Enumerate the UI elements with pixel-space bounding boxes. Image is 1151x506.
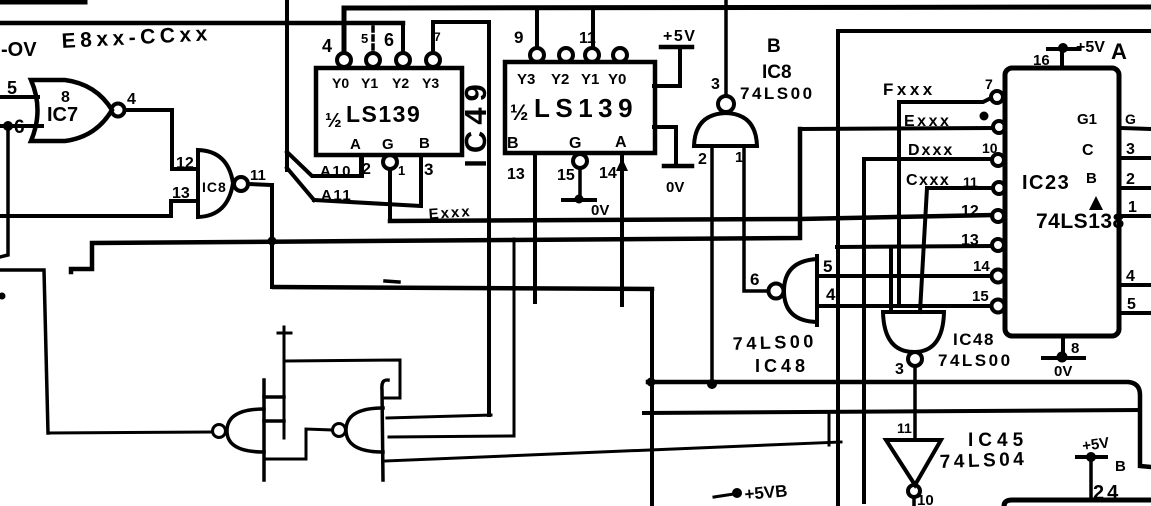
wire rail y382: [648, 382, 1151, 467]
wire Exxx to pin9: [801, 128, 993, 129]
wire pin2 stub A: [359, 155, 363, 174]
wire output 11 down to y288 rail: [270, 185, 274, 287]
wire pin15 to ground: [578, 168, 582, 199]
wire Y3 net jog and long vertical x489: [433, 22, 489, 415]
box bottom right corner: [1004, 500, 1151, 506]
pin12 circle: [992, 210, 1004, 222]
wire Y1 pin up dashed: [371, 27, 375, 51]
svg-text:74LS04: 74LS04: [939, 449, 1027, 473]
svg-text:G: G: [382, 136, 394, 153]
node A10/A11 bus vertical x287: [285, 0, 289, 170]
svg-text:5: 5: [1127, 296, 1136, 313]
wire crossbar inputs gate L: [264, 395, 284, 399]
svg-text:1: 1: [735, 149, 743, 166]
svg-text:12: 12: [176, 155, 194, 172]
junction dot left edge: [0, 293, 6, 300]
svg-text:4: 4: [127, 91, 136, 108]
svg-text:Y2: Y2: [392, 75, 409, 91]
wire pin12 to +5V: [654, 49, 680, 86]
wire y417 lead to x489: [387, 415, 491, 418]
wire top border segment: [0, 0, 85, 5]
wire top rail y8: [344, 7, 1151, 51]
svg-text:4: 4: [322, 36, 332, 56]
power +5V B bottom right: [1077, 455, 1106, 459]
wire Exxx lead x801 handled, rail y31: [838, 31, 1151, 506]
junction x712 on y382: [707, 379, 717, 389]
svg-text:2: 2: [1126, 171, 1135, 188]
power +5VB arrow: [714, 494, 734, 497]
svg-text:13: 13: [172, 185, 190, 202]
nand-gate GL bottom (left-facing): [227, 409, 264, 452]
IC half LS139 box (right): [505, 62, 655, 153]
svg-text:9: 9: [514, 28, 523, 47]
wire rail y288: [274, 287, 652, 289]
nand-gate IC8 section A: [198, 150, 233, 217]
wire Cxxx vertical: [920, 188, 927, 312]
IC IC49 half LS139 box (left): [316, 68, 462, 155]
wire A11 diagonal: [287, 168, 314, 200]
power pin16 +5V: [1060, 49, 1064, 68]
svg-text:4: 4: [826, 285, 836, 304]
tick dash mark: [385, 281, 399, 282]
svg-text:G: G: [1125, 111, 1136, 127]
nor-gate IC7: [31, 80, 112, 141]
svg-text:0V: 0V: [591, 202, 609, 219]
svg-text:Exxx: Exxx: [904, 113, 951, 130]
svg-text:2: 2: [698, 151, 707, 168]
wire Dxxx to pin10: [864, 157, 992, 161]
wire pin1 G circle: [383, 155, 397, 169]
wire IC48 input vertical x891: [889, 247, 893, 312]
wire IC8 pin2 vertical: [710, 146, 714, 384]
wire pin9 up: [535, 8, 539, 48]
svg-text:5: 5: [7, 78, 17, 98]
junction y382 start: [647, 378, 656, 387]
svg-text:IC8: IC8: [762, 62, 792, 83]
svg-text:A: A: [1111, 39, 1127, 64]
svg-text:0V: 0V: [1054, 363, 1072, 380]
svg-text:C: C: [1082, 142, 1094, 159]
svg-text:½: ½: [325, 110, 342, 132]
svg-text:B: B: [1115, 458, 1126, 475]
wire y270 from left edge: [0, 270, 48, 433]
svg-text:½: ½: [510, 100, 528, 125]
wire right pin to ground: [654, 127, 676, 164]
svg-text:Cxxx: Cxxx: [906, 172, 950, 189]
wire gateL output long left: [48, 432, 212, 433]
svg-text:8: 8: [1071, 340, 1079, 357]
power +5V bar: [661, 45, 692, 50]
wire pin13 feed from left edge: [0, 201, 198, 216]
wire IC7 output to node: [125, 108, 172, 112]
ground bar 0V right: [664, 164, 692, 169]
svg-text:IC48: IC48: [953, 330, 995, 349]
node A arrow inside IC23: [1089, 196, 1103, 210]
junction ground dot: [575, 195, 584, 204]
svg-text:14: 14: [973, 258, 990, 275]
svg-text:-OV: -OV: [1, 39, 37, 61]
wire x652 vertical down: [650, 289, 654, 506]
svg-text:10: 10: [982, 140, 998, 156]
svg-text:Dxxx: Dxxx: [908, 142, 954, 159]
ground pin8 0V: [1061, 336, 1065, 356]
svg-text:11: 11: [897, 420, 912, 436]
svg-text:10: 10: [917, 492, 934, 506]
svg-text:11: 11: [579, 30, 596, 47]
wire rail y240 staircase: [71, 129, 800, 272]
svg-text:LS139: LS139: [534, 93, 638, 123]
svg-text:15: 15: [972, 288, 989, 305]
wire y361 branch: [286, 360, 400, 398]
svg-text:74LS00: 74LS00: [938, 351, 1013, 370]
svg-text:IC23: IC23: [1022, 172, 1070, 194]
svg-text:+5VB: +5VB: [744, 481, 788, 504]
ground bar 0V: [563, 198, 595, 202]
svg-text:B: B: [767, 36, 781, 57]
svg-text:Y1: Y1: [581, 71, 599, 88]
wire pin14 down with arrow: [620, 153, 624, 305]
svg-text:3: 3: [424, 160, 433, 179]
wire pin6 stub IC7: [0, 124, 42, 128]
svg-text:6: 6: [384, 30, 394, 50]
wire A10: [287, 152, 362, 176]
wire IC8 pin1 vertical to IC48 output: [744, 146, 766, 291]
svg-text:74LS00: 74LS00: [740, 84, 815, 103]
svg-text:B: B: [507, 135, 519, 152]
svg-text:0V: 0V: [666, 179, 684, 196]
svg-text:A: A: [350, 136, 361, 153]
svg-text:5: 5: [823, 257, 832, 276]
wire pin11 up: [591, 8, 595, 48]
wire stub diagonal to y412: [828, 412, 831, 445]
wire gateL input bar: [262, 380, 266, 480]
svg-text:12: 12: [961, 203, 979, 220]
svg-text:3: 3: [895, 361, 904, 378]
svg-text:11: 11: [250, 167, 266, 184]
svg-text:IC45: IC45: [968, 430, 1028, 451]
svg-text:+5V: +5V: [663, 28, 696, 45]
svg-text:Exxx: Exxx: [428, 203, 472, 223]
wire IC8 output 11: [248, 184, 272, 185]
nand-gate IC48 section B (down-facing): [883, 312, 944, 352]
svg-text:74LS138: 74LS138: [1036, 210, 1125, 233]
node plus mark: [278, 332, 291, 335]
wire pin3 stub B down: [314, 155, 421, 206]
wire pin15 G circle: [573, 154, 587, 168]
wire rail y23: [0, 21, 403, 26]
svg-text:IC7: IC7: [47, 104, 78, 126]
svg-text:13: 13: [961, 232, 979, 249]
wire x284 vertical: [283, 339, 286, 438]
svg-text:4: 4: [1126, 268, 1135, 285]
svg-text:6: 6: [750, 270, 759, 289]
svg-text:2: 2: [362, 161, 371, 178]
wire IC23 right stubs: [1120, 128, 1151, 129]
wire x514 vertical: [513, 239, 516, 436]
nand-gate IC8 section B: [694, 113, 757, 146]
svg-text:Y1: Y1: [361, 75, 378, 91]
svg-text:A11: A11: [321, 187, 352, 204]
svg-text:+5V: +5V: [1076, 39, 1105, 56]
wire Dxxx vertical x864: [862, 159, 866, 502]
wire Y2 pin up: [401, 23, 405, 51]
wire Cxxx to pin11: [927, 186, 993, 190]
svg-text:IC49: IC49: [458, 78, 493, 167]
wire gateR input bar: [382, 380, 388, 480]
svg-text:G: G: [569, 135, 581, 152]
svg-text:IC8: IC8: [202, 179, 227, 195]
svg-text:3: 3: [711, 76, 720, 93]
svg-text:B: B: [419, 135, 430, 152]
svg-text:11: 11: [963, 174, 978, 190]
svg-text:Y0: Y0: [332, 75, 349, 91]
svg-text:14: 14: [599, 165, 617, 182]
svg-text:1: 1: [398, 163, 405, 178]
wire Fxxx vertical x899: [897, 102, 901, 306]
svg-text:Y0: Y0: [608, 71, 626, 88]
svg-text:1: 1: [1128, 199, 1137, 216]
svg-text:B: B: [1086, 170, 1097, 187]
svg-text:Y3: Y3: [422, 75, 439, 91]
svg-text:Fxxx: Fxxx: [883, 80, 936, 99]
svg-text:G1: G1: [1077, 111, 1097, 128]
wire rail y220 from G pin to IC23 pin12: [390, 215, 992, 221]
svg-text:3: 3: [1126, 141, 1135, 158]
wire pin14 row: [817, 274, 991, 278]
wire pin13 down: [533, 153, 537, 302]
wire rail y412: [644, 410, 1140, 413]
svg-text:A: A: [615, 134, 627, 151]
inverter IC45 74LS04: [886, 440, 941, 485]
wire pin15 row: [817, 304, 991, 308]
junction on pin6 wire: [3, 121, 13, 131]
wire diagonal bottom: [386, 442, 841, 461]
junction x272 y241: [268, 237, 277, 246]
svg-text:74LS00: 74LS00: [732, 331, 817, 354]
svg-text:16: 16: [1033, 52, 1050, 69]
nand-gate IC48 section A (left-facing): [815, 256, 819, 325]
wire pin5 stub IC7: [0, 95, 38, 99]
svg-text:7: 7: [434, 30, 441, 44]
nand-gate GR bottom (left-facing): [346, 408, 383, 452]
wire from pin6 junction down to left edge: [0, 126, 8, 257]
wire IC48 output 3 down to IC45: [913, 366, 917, 437]
svg-text:13: 13: [507, 166, 525, 183]
wire Fxxx to pin7: [899, 98, 991, 102]
wire IC7 output down to IC8 pin12: [172, 110, 198, 169]
wire G pin down to rails: [388, 169, 392, 219]
svg-text:Y3: Y3: [517, 71, 535, 88]
svg-text:15: 15: [557, 167, 575, 184]
svg-text:Y2: Y2: [551, 71, 569, 88]
wire gateR output jog: [266, 429, 332, 459]
svg-text:LS139: LS139: [346, 101, 421, 127]
wire y436 lead to x514: [389, 436, 514, 437]
wire IC8 output 3 up: [724, 0, 728, 96]
svg-text:24: 24: [1093, 482, 1121, 504]
svg-text:7: 7: [985, 76, 993, 92]
IC IC23 74LS138 box: [1005, 68, 1119, 336]
svg-text:A10: A10: [320, 163, 352, 180]
svg-text:6: 6: [14, 117, 25, 138]
svg-text:IC48: IC48: [755, 356, 809, 376]
wire pin13 row: [837, 246, 992, 247]
svg-text:5: 5: [361, 31, 368, 46]
